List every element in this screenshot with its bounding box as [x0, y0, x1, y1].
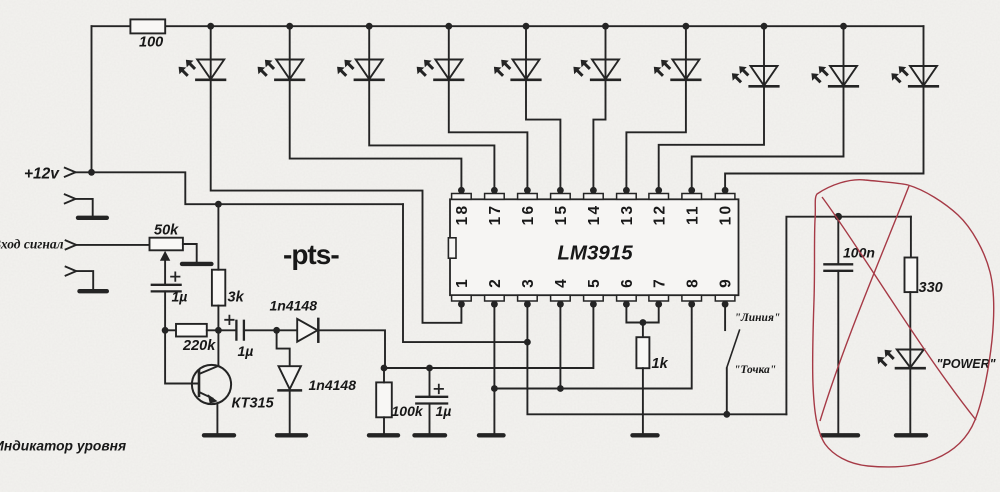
U1 pin 14 (top)	[584, 187, 604, 225]
wire: LED9 cathode to IC pin	[692, 86, 844, 190]
node: D1/D2 junction	[273, 327, 280, 334]
wire: R3 to collector node	[217, 306, 219, 331]
wire: wiper down to C1	[164, 260, 166, 285]
svg-text:17: 17	[487, 204, 504, 226]
resistor R1 100 (in top rail)	[130, 19, 165, 33]
svg-text:1µ: 1µ	[436, 403, 452, 419]
node: pin-3 V+ junction	[524, 339, 531, 346]
switch SW1 arm (Линия/Точка mode)	[727, 330, 740, 368]
transistor Q1 KT315	[192, 365, 231, 404]
node: 100k top junction	[381, 365, 388, 372]
wire: Q1 collector up to node	[217, 330, 219, 366]
wire: riser from V+ run up to RC branch	[786, 217, 911, 415]
resistor R7 330	[905, 258, 918, 293]
wire: left vertical from top rail down to +12v node	[91, 26, 93, 172]
U1 pin 15 (top)	[551, 187, 571, 225]
LED4 (level LED 4)	[417, 23, 463, 80]
wire: LED1 cathode to IC pin	[211, 80, 462, 323]
LED5 (level LED 5)	[494, 23, 540, 80]
wire: R5 leads	[383, 368, 385, 433]
svg-text:"Линия": "Линия"	[735, 312, 781, 324]
U1 pin 10 (top)	[715, 187, 735, 225]
node: +12v junction	[88, 169, 95, 176]
capacitor C1 1µ (polarized, from wiper)	[152, 272, 181, 291]
svg-text:15: 15	[553, 204, 570, 226]
wire: node to C2	[218, 329, 236, 331]
wire: base node down to Q1 base	[165, 330, 199, 383]
node: C1 / R4 / base junction	[162, 327, 169, 334]
connector arrow for signal input	[66, 240, 77, 249]
svg-text:14: 14	[586, 204, 603, 226]
svg-text:3: 3	[520, 279, 537, 288]
resistor R6 1k	[636, 337, 649, 368]
U1 pin 18 (top)	[452, 187, 472, 225]
U1 pin 4 (bottom)	[551, 279, 571, 308]
node: junction to R3 3k	[215, 201, 222, 208]
capacitor C3 1µ (filter)	[416, 368, 447, 433]
wire: IC pins 6,7 tied together	[626, 304, 658, 322]
svg-text:3k: 3k	[228, 290, 245, 306]
U1 pin 1 (bottom)	[452, 279, 472, 308]
svg-text:13: 13	[619, 204, 636, 226]
U1 pin 3 (bottom)	[518, 279, 538, 308]
node: C4 top junction	[835, 213, 843, 221]
node: bus at pin 4	[557, 385, 564, 392]
svg-text:100n: 100n	[843, 245, 875, 261]
U1 pin 5 (bottom)	[584, 279, 604, 308]
wire: branch down to R7	[910, 217, 912, 258]
wire: node to R4	[165, 329, 176, 331]
LED9 (level LED 9)	[811, 23, 857, 87]
wire: C1 to base node	[164, 291, 166, 330]
U1 pin 6 (bottom)	[617, 279, 637, 308]
svg-text:220k: 220k	[182, 338, 216, 354]
node: R4 / R3 / collector / C2 junction	[215, 327, 222, 334]
red annotation: cross diagonal 2	[820, 186, 909, 421]
capacitor C2 1µ (series coupling)	[225, 316, 244, 340]
U1 pin 9 (bottom)	[715, 279, 735, 308]
LED7 (level LED 7)	[654, 23, 700, 80]
svg-text:КТ315: КТ315	[232, 396, 275, 412]
svg-text:1k: 1k	[652, 356, 669, 372]
wire: IC pin 9 to switch top contact	[724, 304, 726, 330]
svg-text:-pts-: -pts-	[283, 239, 339, 270]
svg-text:100k: 100k	[392, 403, 424, 419]
svg-text:330: 330	[919, 280, 943, 296]
svg-text:16: 16	[520, 204, 537, 226]
resistor R5 100k	[376, 382, 392, 417]
wire: LED5 cathode to IC pin	[526, 80, 560, 191]
ground under C3	[415, 433, 446, 437]
ground under D2	[277, 433, 306, 437]
svg-text:9: 9	[718, 279, 735, 288]
red annotation: hand-drawn circle crossing out the RC/POWER branch	[813, 180, 994, 467]
wire: switch bottom contact to V+ wire	[726, 368, 728, 414]
U1 pin 13 (top)	[617, 187, 637, 225]
svg-text:100: 100	[139, 35, 163, 51]
LED3 (level LED 3)	[337, 23, 383, 80]
wire: IC pin 3 down and right (V+ to mode switch / RC branch)	[527, 304, 786, 414]
wire: +V top rail feeding LED anodes	[92, 25, 924, 27]
op-amp/driver IC U1 LM3915 body	[450, 199, 739, 295]
svg-text:Индикатор уровня: Индикатор уровня	[0, 439, 126, 454]
wire: LED10 cathode to IC pin	[725, 86, 923, 190]
svg-text:1n4148: 1n4148	[309, 377, 357, 393]
wire: R2 top terminal to ground	[183, 244, 197, 261]
ground under power LED	[896, 433, 926, 437]
wire: power LED to ground	[909, 368, 911, 433]
ground under R6	[633, 433, 658, 437]
svg-text:7: 7	[651, 279, 668, 288]
U1 pin 2 (bottom)	[485, 279, 505, 307]
svg-text:1µ: 1µ	[238, 343, 254, 359]
diode D2 1n4148 (clamp to ground)	[277, 330, 301, 390]
wire: R6 to ground	[642, 368, 644, 433]
ground connector stub (power input shield)	[65, 194, 107, 217]
ground under R5	[369, 433, 398, 437]
svg-text:12: 12	[651, 204, 668, 226]
wire: IC pin 4 down to ground bus	[559, 304, 561, 388]
wire: LED6 cathode to IC pin	[593, 80, 605, 191]
U1 pin 8 (bottom)	[682, 279, 702, 308]
wire: V+ run down to IC pin 3	[403, 204, 527, 342]
wire: LED3 cathode to IC pin	[369, 80, 494, 191]
wire: LED2 cathode to IC pin	[290, 80, 462, 191]
ground under C4	[822, 433, 858, 437]
U1 pin 12 (top)	[649, 187, 669, 225]
svg-text:11: 11	[684, 204, 701, 225]
LED1 (level LED 1)	[179, 23, 225, 80]
LED10 (level LED 10)	[891, 26, 937, 86]
node: C3 top junction	[426, 365, 433, 372]
wire: LED7 cathode to IC pin	[626, 80, 686, 191]
svg-text:+12v: +12v	[24, 166, 60, 183]
potentiometer R2 50k body	[150, 238, 183, 251]
svg-text:5: 5	[586, 279, 603, 288]
LED D3 POWER indicator	[877, 350, 924, 369]
svg-text:50k: 50k	[154, 223, 179, 239]
svg-text:8: 8	[684, 279, 701, 288]
wire: junction to R6	[642, 323, 644, 338]
node: bus at pin 2	[491, 385, 498, 392]
svg-text:"Точка": "Точка"	[734, 364, 776, 376]
wire: Q1 emitter to ground	[216, 403, 218, 433]
red annotation: cross diagonal 1	[822, 197, 976, 420]
svg-text:1µ: 1µ	[172, 289, 188, 305]
svg-text:6: 6	[619, 279, 636, 288]
U1 pin-1 side notch mark	[448, 238, 456, 258]
LED8 (level LED 8)	[732, 23, 778, 87]
svg-text:1n4148: 1n4148	[270, 298, 318, 314]
wire: C2 to D1/D2 node	[244, 329, 297, 331]
U1 pin 7 (bottom)	[649, 279, 669, 307]
svg-text:4: 4	[553, 279, 570, 288]
LED2 (level LED 2)	[258, 23, 304, 80]
ground connector stub (signal shield)	[66, 267, 107, 292]
wire: R4 to collector node	[207, 329, 219, 331]
wire: +12v connector to rail node	[76, 171, 92, 173]
svg-text:10: 10	[718, 204, 735, 226]
LED6 (level LED 6)	[573, 23, 619, 80]
svg-text:18: 18	[454, 204, 471, 226]
R2 wiper arrow	[160, 251, 170, 261]
wire: D2 to ground	[289, 390, 291, 433]
node: switch to V+ run	[723, 411, 730, 418]
ground under Q1	[204, 433, 234, 437]
wire: LED8 cathode to IC pin	[659, 86, 764, 190]
svg-text:Вход сигнал: Вход сигнал	[0, 237, 64, 252]
wire: signal input to R2 50k	[76, 244, 149, 246]
resistor R3 3k	[212, 270, 225, 306]
ground bar under R2	[182, 262, 211, 266]
wire: +12v to V+ distribution (upper run)	[92, 172, 404, 204]
wire: IC pin 5 signal input	[384, 304, 593, 368]
ground under pin 2	[479, 433, 504, 437]
connector arrow for +12v input	[65, 168, 76, 177]
node: pins 6-7 junction	[640, 319, 647, 326]
wire: D1 to signal node at 100k	[318, 330, 385, 368]
wire: V+ node down to R3	[217, 204, 219, 270]
wire: R7 to power LED	[909, 292, 911, 349]
svg-text:2: 2	[487, 279, 504, 288]
svg-text:LM3915: LM3915	[557, 242, 633, 265]
U1 pin 17 (top)	[485, 187, 505, 225]
resistor R4 220k	[176, 324, 207, 337]
wire: ground bus pin2-pin4-pin8	[494, 304, 691, 388]
U1 pin 11 (top)	[682, 187, 702, 225]
U1 pin 16 (top)	[518, 187, 538, 225]
svg-text:1: 1	[454, 279, 471, 288]
wire: LED4 cathode to IC pin	[449, 80, 528, 191]
diode D1 1n4148 (series)	[297, 319, 318, 342]
wire: IC pin 2 to ground	[493, 304, 495, 433]
capacitor C4 100n	[824, 217, 852, 433]
